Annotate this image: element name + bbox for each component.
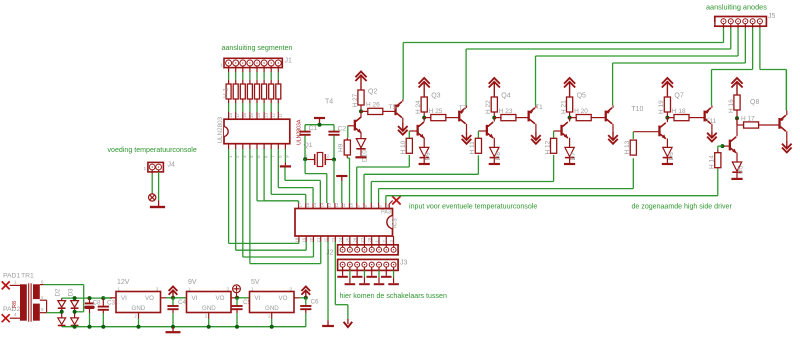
label H 23 <box>499 108 513 115</box>
resistor H 23 <box>501 115 516 121</box>
label H 12 <box>544 140 551 154</box>
label H16 <box>728 99 735 113</box>
wire PNP collector down stage 6 <box>786 131 788 140</box>
arrow below PNP stage 6 <box>782 140 792 152</box>
node stage 6 base <box>720 144 724 148</box>
svg-text:6: 6 <box>41 280 44 285</box>
wire junction down to NPN stage 5 <box>666 118 668 123</box>
ground below D10 <box>355 156 366 158</box>
wires J5 pins 1-4 to stages <box>403 24 745 63</box>
label TR1 <box>21 273 34 280</box>
label H1 <box>223 88 230 99</box>
wire NPN base stage 5 <box>633 131 658 133</box>
wire H27 to junction <box>360 105 362 111</box>
pad PAD1 <box>2 281 10 289</box>
wire J5 pin 6 to stage 6 <box>760 24 787 111</box>
svg-text:D2: D2 <box>55 288 62 297</box>
svg-text:2: 2 <box>327 154 330 160</box>
label H 20 <box>574 108 588 115</box>
label C8 <box>93 300 102 307</box>
ULN2803 bottom pin stubs and numbers <box>228 144 283 158</box>
svg-text:H 21: H 21 <box>560 100 567 114</box>
svg-text:2: 2 <box>268 314 271 319</box>
wire ULN ground to IC3 <box>285 168 320 204</box>
svg-text:PA3: PA3 <box>381 210 391 216</box>
capacitor C1 <box>299 125 310 160</box>
wire junction to H26 <box>361 110 368 112</box>
resistor H27 <box>358 90 364 105</box>
voltage regulator IC 9V <box>187 287 232 319</box>
svg-text:aansluiting anodes: aansluiting anodes <box>706 3 767 12</box>
svg-text:H 13: H 13 <box>624 140 631 154</box>
wire NPN emitter to diode stage 3 <box>493 138 495 148</box>
node C1-C2 ground junction <box>305 123 334 127</box>
no-connect X mark <box>392 196 400 204</box>
label C1 <box>309 125 318 132</box>
wire H 21 to junction <box>569 112 571 118</box>
supply arrow 5V <box>301 287 310 298</box>
svg-text:15: 15 <box>249 112 254 118</box>
svg-text:D5: D5 <box>738 165 745 174</box>
wire crystal to IC3 <box>305 159 327 203</box>
svg-text:J4: J4 <box>168 162 176 169</box>
svg-text:H 27: H 27 <box>352 93 359 107</box>
transistor PNP stage 4 <box>605 108 613 124</box>
supply symbol 9V circle-plus <box>233 285 241 298</box>
wire H 24 to junction <box>423 112 425 118</box>
voltage regulator IC 5V <box>250 287 295 319</box>
wire H 18 to PNP base <box>689 117 704 119</box>
ground stage 5 <box>662 163 673 165</box>
ground rail <box>62 325 306 329</box>
wires H1 to ULN2803 <box>229 99 279 119</box>
wire PNP collector down stage 5 <box>711 124 713 132</box>
ground long vertical <box>322 325 334 327</box>
wire D10 to ground <box>360 147 362 156</box>
capacitor C4 <box>167 298 178 327</box>
grounds below J3 <box>337 267 399 284</box>
svg-text:D3: D3 <box>67 288 74 297</box>
transistor NPN stage 2 <box>417 122 425 138</box>
ground near IC3 <box>336 176 347 203</box>
wire NPN emitter to diode stage 5 <box>666 139 668 148</box>
svg-text:J1: J1 <box>285 58 293 65</box>
label D9 <box>425 152 432 161</box>
svg-text:12: 12 <box>270 112 275 118</box>
node D3 mid <box>73 310 77 314</box>
transformer TR1 <box>20 283 40 321</box>
diode D9 <box>420 147 429 157</box>
resistor H 22 <box>491 97 497 112</box>
ground below J4 <box>150 206 165 208</box>
svg-text:de zogenaamde high side driver: de zogenaamde high side driver <box>632 204 733 211</box>
label C6 <box>311 299 320 306</box>
label PAD2 <box>3 306 20 313</box>
label J4 <box>168 162 176 169</box>
diode D7 <box>565 147 574 157</box>
9V regulator ground stub <box>208 313 210 327</box>
12V regulator ground stub <box>138 313 140 327</box>
label pin PA3 <box>381 210 391 216</box>
diode D5 <box>732 162 741 172</box>
label H 18 <box>672 108 686 115</box>
node stage 3 junction <box>492 116 496 120</box>
svg-text:T7: T7 <box>459 105 467 112</box>
wire TR1 pins 4-5 join <box>40 300 62 313</box>
svg-text:Q1: Q1 <box>304 142 313 149</box>
wire PNP emitter up stage 5 <box>711 70 713 108</box>
label 5V <box>251 279 260 286</box>
svg-text:C2: C2 <box>338 126 347 133</box>
dc plus rail <box>62 296 112 300</box>
svg-text:H 1: H 1 <box>223 88 230 99</box>
label voeding temperatuurconsole <box>108 146 197 154</box>
arrow below PNP stage 3 <box>531 131 541 144</box>
label D3 <box>67 288 74 297</box>
resistor H26 <box>368 108 383 114</box>
wire junction to H 23 <box>494 117 501 119</box>
transistor PNP stage 5 <box>704 108 712 124</box>
wire J4 pin1 to supply <box>151 170 153 193</box>
wire junction down to NPN stage 2 <box>423 118 425 122</box>
label H17 <box>741 115 755 122</box>
label Q3 <box>431 93 440 100</box>
label H 25 <box>429 108 443 115</box>
label T10 <box>631 106 643 113</box>
connector J5 <box>715 17 767 27</box>
svg-text:aansluiting segmenten: aansluiting segmenten <box>222 44 293 52</box>
connector J2 <box>338 245 399 255</box>
label J5 <box>768 13 776 20</box>
label IC3 <box>392 218 399 228</box>
wire PNP emitter up stage 2 <box>465 49 467 108</box>
svg-text:IC3: IC3 <box>392 218 399 228</box>
svg-text:J3: J3 <box>400 260 408 267</box>
wire rail to 12V regulator <box>103 297 116 299</box>
power arrow stage 4 <box>564 78 575 97</box>
label H 21 <box>560 100 567 114</box>
wire PNP emitter up stage 6 <box>785 70 787 116</box>
wire junction down to NPN stage 6 <box>736 118 738 136</box>
transistor PNP stage 3 <box>528 108 536 124</box>
pad PAD2 <box>2 314 10 322</box>
wire NPN emitter to diode stage 2 <box>423 138 425 148</box>
label T1 <box>535 104 543 111</box>
label H26 <box>366 102 380 109</box>
node D2 mid <box>60 310 64 314</box>
label C3 <box>107 300 116 307</box>
svg-text:VI: VI <box>192 295 198 302</box>
svg-text:C6: C6 <box>311 299 320 306</box>
svg-text:C8: C8 <box>93 300 102 307</box>
wire IC3 to switch arrow <box>335 242 348 320</box>
label H 10 <box>400 140 407 154</box>
crystal Q1 <box>305 153 334 167</box>
wire to unconnected input <box>389 201 392 209</box>
diode D8 <box>490 147 499 157</box>
node stage 1 junction <box>359 109 363 113</box>
label D5 <box>738 165 745 174</box>
resistor H 12 <box>551 138 557 153</box>
label H9 <box>338 143 345 152</box>
label J3 <box>400 260 408 267</box>
resistor H 19 <box>664 97 670 112</box>
power arrow stage 6 <box>731 78 742 95</box>
svg-text:hier komen de schakelaars tuss: hier komen de schakelaars tussen <box>340 292 447 300</box>
label T5 <box>389 104 397 111</box>
wire T5 emitter up <box>402 43 404 102</box>
label PAD1 <box>3 273 20 280</box>
resistor H 20 <box>576 115 591 121</box>
svg-text:2: 2 <box>135 314 138 319</box>
svg-text:H 10: H 10 <box>400 140 407 154</box>
label hier komen de schakelaars tussen <box>340 292 447 300</box>
resistor array H1 <box>226 84 281 99</box>
svg-text:T10: T10 <box>631 106 643 113</box>
wires IC3 to driver stage base resistors <box>357 155 718 203</box>
svg-text:1: 1 <box>14 280 17 285</box>
transistor PNP stage 6 <box>778 115 786 131</box>
svg-text:R8: R8 <box>12 301 18 308</box>
wire J5 pin 5 to stage 5 <box>712 24 753 70</box>
ground stage 2 <box>419 163 430 165</box>
svg-text:input voor eventuele temperatu: input voor eventuele temperatuurconsole <box>409 203 537 211</box>
resistor H 25 <box>431 115 446 121</box>
wire junction to H 25 <box>424 117 431 119</box>
pin 1 label J4 <box>144 166 147 172</box>
wire H16 to junction <box>736 110 738 118</box>
svg-text:C3: C3 <box>107 300 116 307</box>
TR1 pin numbers <box>14 280 44 318</box>
svg-text:PAD1: PAD1 <box>3 273 20 280</box>
svg-text:GND: GND <box>265 305 279 312</box>
power arrow stage 1 <box>355 72 366 91</box>
wire NPN emitter to diode stage 4 <box>569 138 571 148</box>
svg-text:GND: GND <box>202 305 216 312</box>
label D6 <box>668 152 675 161</box>
diode D6 <box>663 147 672 157</box>
capacitor C2 <box>328 125 339 160</box>
svg-text:ULN2803: ULN2803 <box>217 116 224 143</box>
transistor NPN stage 3 <box>486 122 494 138</box>
wire NPN base stage 4 <box>554 130 561 132</box>
node crystal right <box>332 158 336 162</box>
5V regulator ground stub <box>271 313 273 327</box>
svg-text:D6: D6 <box>668 152 675 161</box>
wires ULN inputs 5-8 to IC3 top pins <box>257 149 313 203</box>
svg-text:H 14: H 14 <box>709 155 716 169</box>
wire PAD2 to TR1 <box>10 317 20 319</box>
pin 1 label J5 <box>714 21 717 27</box>
IC3 microcontroller body <box>295 209 393 237</box>
power arrow stage 2 <box>419 78 430 97</box>
transistor PNP stage 2 <box>458 108 466 124</box>
wire H 19 to junction <box>666 112 668 118</box>
svg-text:9: 9 <box>285 155 290 158</box>
label 9V <box>188 279 197 286</box>
capacitor C3 <box>98 298 109 327</box>
wire diode to ground stage 3 <box>493 156 495 163</box>
svg-text:H 24: H 24 <box>415 100 422 114</box>
wire crystal right to IC3 <box>333 160 335 204</box>
svg-text:18: 18 <box>228 112 233 118</box>
label Q5 <box>577 93 586 100</box>
svg-text:T5: T5 <box>389 104 397 111</box>
wires ULN outputs 1-4 to IC3 bottom pins <box>229 149 321 264</box>
ground stage 6 <box>731 178 742 180</box>
wire PNP emitter up stage 4 <box>612 63 614 108</box>
supply symbol circle-cross <box>149 193 156 201</box>
resistor H 24 <box>421 97 427 112</box>
wire NPN base stage 3 <box>478 130 486 132</box>
label D10 <box>362 150 369 162</box>
svg-text:16: 16 <box>242 112 247 118</box>
label H 19 <box>658 100 665 114</box>
node stage 6 junction <box>735 116 739 120</box>
svg-text:1: 1 <box>144 166 147 172</box>
resistor H 11 <box>475 138 481 153</box>
svg-text:C4: C4 <box>178 299 187 306</box>
resistor H 18 <box>674 115 689 121</box>
connector J3 <box>338 259 399 270</box>
ground for ULN pin 9 <box>280 165 291 167</box>
label aansluiting anodes <box>706 3 767 12</box>
label T4 <box>325 99 333 106</box>
wire diode to ground stage 5 <box>666 156 668 163</box>
arrow down switches <box>344 319 353 327</box>
resistor H14 <box>715 153 721 168</box>
svg-text:1: 1 <box>220 63 223 69</box>
label Q1 <box>304 142 313 149</box>
resistor H 13 <box>630 140 636 155</box>
svg-text:TR1: TR1 <box>21 273 34 280</box>
svg-text:D8: D8 <box>495 152 502 161</box>
svg-text:J2: J2 <box>326 250 334 257</box>
transistor T5 <box>394 102 402 118</box>
wire base resistor link stage 4 <box>553 131 555 138</box>
label H14 <box>709 155 716 169</box>
wire 5V output <box>294 296 308 300</box>
node stage 2 junction <box>422 116 426 120</box>
label J1 <box>285 58 293 65</box>
svg-text:H 23: H 23 <box>499 108 513 115</box>
capacitor C5 <box>231 298 242 327</box>
svg-text:5: 5 <box>41 307 44 312</box>
label Q2 <box>368 89 377 96</box>
wire H26 to T5 base <box>383 110 395 112</box>
label D7 <box>570 152 577 161</box>
wire H 25 to PNP base <box>446 117 459 119</box>
svg-text:VO: VO <box>145 295 154 302</box>
wire base resistor link stage 6 <box>718 146 723 153</box>
svg-text:Q8: Q8 <box>750 99 759 106</box>
svg-text:H 18: H 18 <box>672 108 686 115</box>
svg-text:J5: J5 <box>768 13 776 20</box>
node stage 4 junction <box>568 116 572 120</box>
label T7 <box>459 105 467 112</box>
wire base resistor link stage 2 <box>408 131 410 138</box>
label H27 <box>352 93 359 107</box>
svg-text:D9: D9 <box>425 152 432 161</box>
svg-text:14: 14 <box>256 112 261 118</box>
wires IC3 to J2 <box>343 242 394 248</box>
wire T4 base <box>348 125 354 127</box>
svg-text:H 16: H 16 <box>728 99 735 113</box>
svg-text:11: 11 <box>278 113 283 118</box>
label H 22 <box>485 100 492 114</box>
resistor H 21 <box>567 97 573 112</box>
svg-text:5V: 5V <box>251 279 260 286</box>
wires J1 to resistor array H1 <box>229 66 279 84</box>
wire junction down to NPN stage 4 <box>569 118 571 122</box>
svg-text:H 22: H 22 <box>485 100 492 114</box>
arrow below PNP stage 4 <box>608 131 618 144</box>
diode D10 <box>356 139 365 149</box>
wire junction down to T4 <box>360 111 362 117</box>
wire TR1 pin6 <box>40 285 84 312</box>
label C2 <box>338 126 347 133</box>
svg-text:17: 17 <box>235 112 240 118</box>
label D2 <box>55 288 62 297</box>
svg-text:H 12: H 12 <box>544 140 551 154</box>
wire H 22 to junction <box>493 112 495 118</box>
wire IC3 to ground rail <box>327 242 329 326</box>
resistor H 10 <box>406 138 412 153</box>
ground above C1 C2 <box>314 118 325 125</box>
wire junction jog to H17 <box>737 118 744 125</box>
wire base resistor link stage 5 <box>632 132 634 139</box>
svg-text:12V: 12V <box>117 279 130 286</box>
wire T5 collector down <box>402 118 404 123</box>
arrow below PNP stage 5 <box>707 131 717 141</box>
svg-text:Q4: Q4 <box>501 93 510 100</box>
transistor NPN stage 5 <box>658 123 666 139</box>
svg-text:H 25: H 25 <box>429 108 443 115</box>
wire junction down to NPN stage 3 <box>493 118 495 122</box>
svg-text:VO: VO <box>216 295 225 302</box>
label J2 <box>326 250 334 257</box>
power arrow stage 5 <box>662 78 673 97</box>
wire PNP collector down stage 4 <box>612 124 614 132</box>
crystal pin 1 number <box>306 154 309 160</box>
ULN2803 pin 9 stub <box>285 144 290 166</box>
wire PNP collector down stage 3 <box>535 124 537 132</box>
wire base resistor link stage 3 <box>477 131 479 138</box>
svg-text:T11: T11 <box>706 118 717 125</box>
label C5 <box>243 299 252 306</box>
svg-text:VI: VI <box>121 295 127 302</box>
label T11 <box>706 118 717 125</box>
wire H 20 to PNP base <box>591 117 605 119</box>
arrow below T5 <box>398 122 408 134</box>
svg-text:VI: VI <box>255 295 261 302</box>
svg-text:T4: T4 <box>325 99 333 106</box>
IC3 top pin stubs <box>298 202 390 208</box>
label C4 <box>178 299 187 306</box>
svg-text:13: 13 <box>263 112 268 118</box>
label ULN2803 <box>217 116 224 143</box>
resistor H9 <box>344 138 350 155</box>
transformer value text <box>12 301 18 308</box>
svg-text:Q5: Q5 <box>577 93 586 100</box>
wire 9V output <box>231 296 250 300</box>
wire junction to H 18 <box>667 117 674 119</box>
label Q8 <box>750 99 759 106</box>
arrow below PNP stage 2 <box>462 131 472 144</box>
connector J1 <box>224 58 282 67</box>
wire NPN emitter to diode stage 6 <box>736 153 738 162</box>
IC ULN2803 body <box>224 119 290 144</box>
